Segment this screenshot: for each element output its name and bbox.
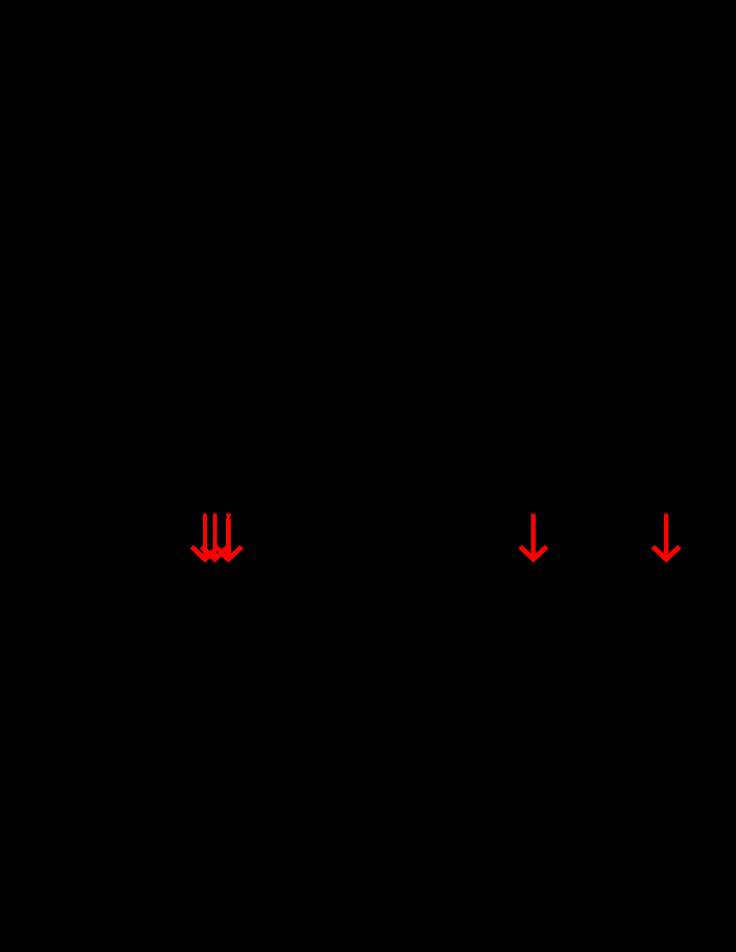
ground <box>425 650 445 670</box>
voltage source V1 <box>191 586 219 614</box>
force arrow F2 (red, downward, middle of cluster) <box>202 514 229 560</box>
wire: top rail (black ink, invisible on black background) <box>150 516 300 518</box>
node F: black ink dot over F2 arrowhead <box>216 551 218 553</box>
wire: sloped segment over load cluster <box>188 546 240 554</box>
node A: left support point <box>203 561 208 566</box>
node B: mid support point <box>531 561 536 566</box>
capacitor C1 <box>656 575 676 617</box>
node E: black ink dot over right edge of F3 shaft <box>230 516 233 519</box>
node D: black ink dot over left edge of F3 shaft <box>224 515 227 518</box>
force arrow F4 (red, downward, centre) <box>520 514 547 560</box>
node C: right support point <box>664 561 669 566</box>
force arrow F3 (red, downward, right of cluster) <box>215 514 242 560</box>
force arrow F5 (red, downward, right) <box>653 514 680 560</box>
wire: bottom rail <box>205 617 666 650</box>
force arrow F1 (red, downward, left of cluster) <box>192 514 219 560</box>
resistor R1 <box>529 575 537 619</box>
beam: main horizontal member <box>140 562 700 564</box>
